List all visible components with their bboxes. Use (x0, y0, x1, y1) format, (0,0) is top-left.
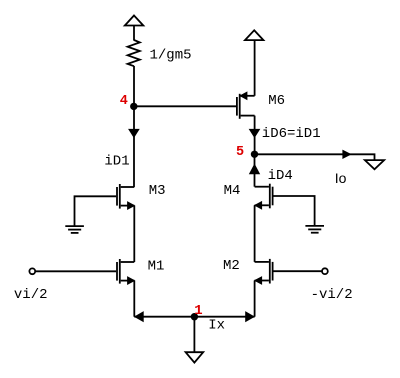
svg-text:iD1: iD1 (104, 154, 129, 170)
transistor M6 (237, 92, 255, 119)
resistor 1/gm5 (128, 40, 140, 66)
ground output (triangle) (365, 160, 384, 169)
svg-text:Ix: Ix (208, 318, 225, 334)
arrow rail left (135, 312, 143, 321)
transistor M1 (117, 259, 134, 284)
svg-text:vi/2: vi/2 (14, 287, 48, 303)
ground bottom (triangle) (186, 352, 204, 362)
wire node 5 to output ground (255, 154, 375, 160)
wire node 1 to ground (193, 317, 195, 353)
node 1 dot (191, 313, 198, 320)
wire VDD1 stem (133, 26, 135, 41)
transistor M2 (255, 259, 273, 284)
wire resistor to node 4 (133, 66, 135, 107)
wire M3 source to M1 drain (133, 206, 135, 262)
input terminal -vi/2 (322, 268, 328, 274)
wire M2 source down to rail (254, 281, 256, 317)
node 4 dot (130, 103, 137, 110)
wire bottom rail (134, 316, 254, 318)
input terminal vi/2 (29, 268, 35, 274)
wire M6 drain to node 5 (254, 116, 256, 155)
ground right (earth) (305, 226, 324, 233)
svg-text:5: 5 (236, 145, 244, 160)
svg-text:M3: M3 (149, 183, 166, 199)
svg-text:M4: M4 (224, 183, 241, 199)
svg-text:M6: M6 (268, 93, 285, 109)
VDD symbol top-left (125, 16, 144, 26)
wire M4 gate right (274, 196, 315, 226)
svg-text:M1: M1 (148, 259, 165, 275)
wire VDD2 stem (254, 40, 256, 96)
arrow iD1 down (130, 130, 138, 137)
transistor M4 (255, 184, 273, 209)
svg-text:M2: M2 (223, 258, 240, 274)
svg-text:1/gm5: 1/gm5 (150, 47, 192, 63)
wire M2 gate to input terminal (274, 270, 322, 272)
ground left (earth) (65, 226, 84, 233)
wire node 4 down to M3 drain (133, 106, 135, 187)
transistor M3 (117, 184, 134, 209)
arrow iD4 up (250, 165, 258, 173)
VDD symbol top-right (245, 30, 263, 40)
svg-text:4: 4 (120, 94, 128, 109)
node 5 dot (251, 151, 258, 158)
wire M4 source to M2 drain (254, 205, 256, 262)
svg-text:iD4: iD4 (268, 168, 293, 184)
arrow rail right (246, 312, 254, 321)
arrow iD6 down (250, 130, 258, 137)
wire node 5 down to M4 drain (254, 154, 256, 186)
svg-text:1: 1 (194, 303, 202, 319)
wire M3 gate left (75, 196, 117, 226)
svg-text:iD6=iD1: iD6=iD1 (262, 126, 321, 142)
svg-text:-vi/2: -vi/2 (311, 287, 353, 303)
wire M1 source down to rail (133, 281, 135, 317)
wire node 4 to M6 gate (134, 105, 236, 107)
svg-text:Io: Io (335, 170, 347, 186)
arrow Io right (343, 150, 351, 158)
wire M1 gate to input terminal (35, 270, 116, 272)
